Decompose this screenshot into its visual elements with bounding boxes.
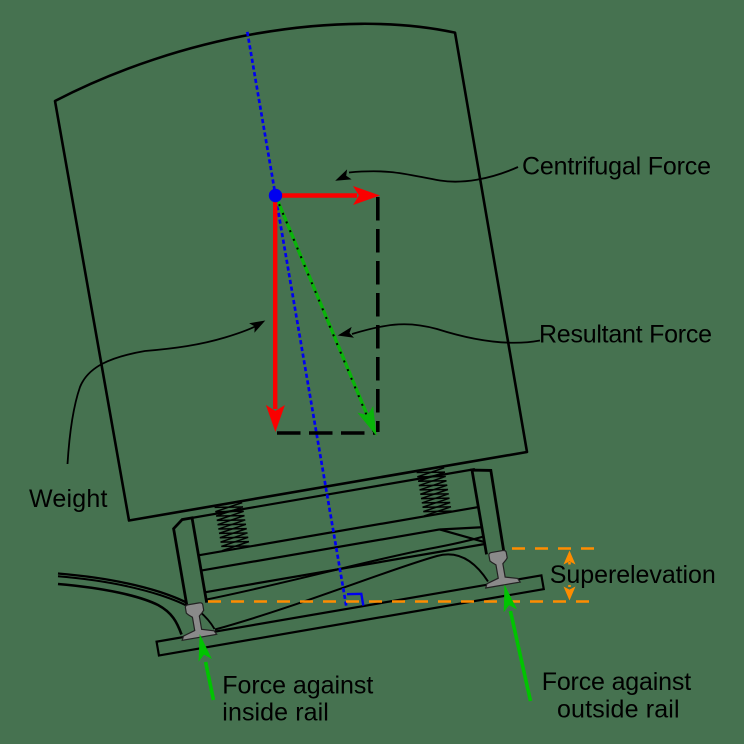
callout curve centrifugal [349, 167, 518, 182]
wire distant track curve upper-a [58, 574, 190, 605]
force against inside rail arrow [199, 634, 214, 700]
rail inside (left) [176, 601, 216, 640]
blue centre axis dashed [247, 32, 346, 608]
bogie bolster beam bottom [201, 529, 439, 570]
wire under-bogie arc to outside wheel [204, 536, 487, 601]
node centre of mass [269, 189, 282, 202]
superelevation arrowhead up [564, 551, 576, 565]
callout curve resultant [352, 324, 540, 343]
svg-text:Centrifugal Force: Centrifugal Force [522, 153, 711, 181]
callout arrowhead centrifugal [335, 169, 351, 180]
wire distant track curve lower bold [58, 584, 182, 635]
car body [55, 24, 527, 521]
track slab [157, 575, 544, 655]
svg-text:inside rail: inside rail [222, 699, 328, 727]
wire curve segment right of inside rail web [199, 611, 215, 629]
svg-text:Weight: Weight [29, 485, 108, 513]
svg-text:Resultant Force: Resultant Force [539, 321, 712, 349]
centrifugal force arrow shaft [276, 193, 358, 197]
wire distant track curve upper-b [58, 576, 190, 607]
spring left [215, 503, 250, 551]
force against outside rail arrow [504, 585, 531, 702]
bogie bolster beam top [199, 507, 479, 555]
superelevation arrow stubs [568, 562, 571, 587]
superelevation dashed line upper [512, 547, 598, 550]
svg-text:outside rail: outside rail [557, 696, 680, 724]
weight arrow shaft [273, 197, 277, 409]
rail outside (right) [480, 549, 520, 588]
resultant force arrow (green) [276, 196, 377, 437]
svg-text:Superelevation: Superelevation [550, 561, 716, 589]
bogie brace lower [440, 522, 485, 549]
weight arrowhead [266, 405, 285, 432]
svg-text:Force against: Force against [542, 668, 692, 696]
callout arrowhead resultant [338, 327, 354, 338]
right-angle mark [347, 594, 363, 606]
bogie brace upper [440, 522, 482, 534]
superelevation dashed line lower [208, 600, 598, 603]
svg-text:Force against: Force against [222, 672, 373, 700]
parallelogram bottom dashed edge [277, 431, 376, 435]
parallelogram right dashed edge [376, 197, 380, 432]
bogie frame top member [189, 469, 475, 518]
centrifugal force arrowhead [353, 186, 380, 205]
wire under-bogie arc to outside rail foot [215, 554, 488, 629]
callout curve weight [68, 327, 256, 465]
callout arrowhead weight [249, 321, 265, 333]
wheel right [472, 467, 505, 554]
spring right [417, 468, 452, 516]
superelevation arrowhead down [564, 587, 576, 601]
wheel left [172, 518, 206, 606]
bogie axle line [202, 544, 488, 593]
